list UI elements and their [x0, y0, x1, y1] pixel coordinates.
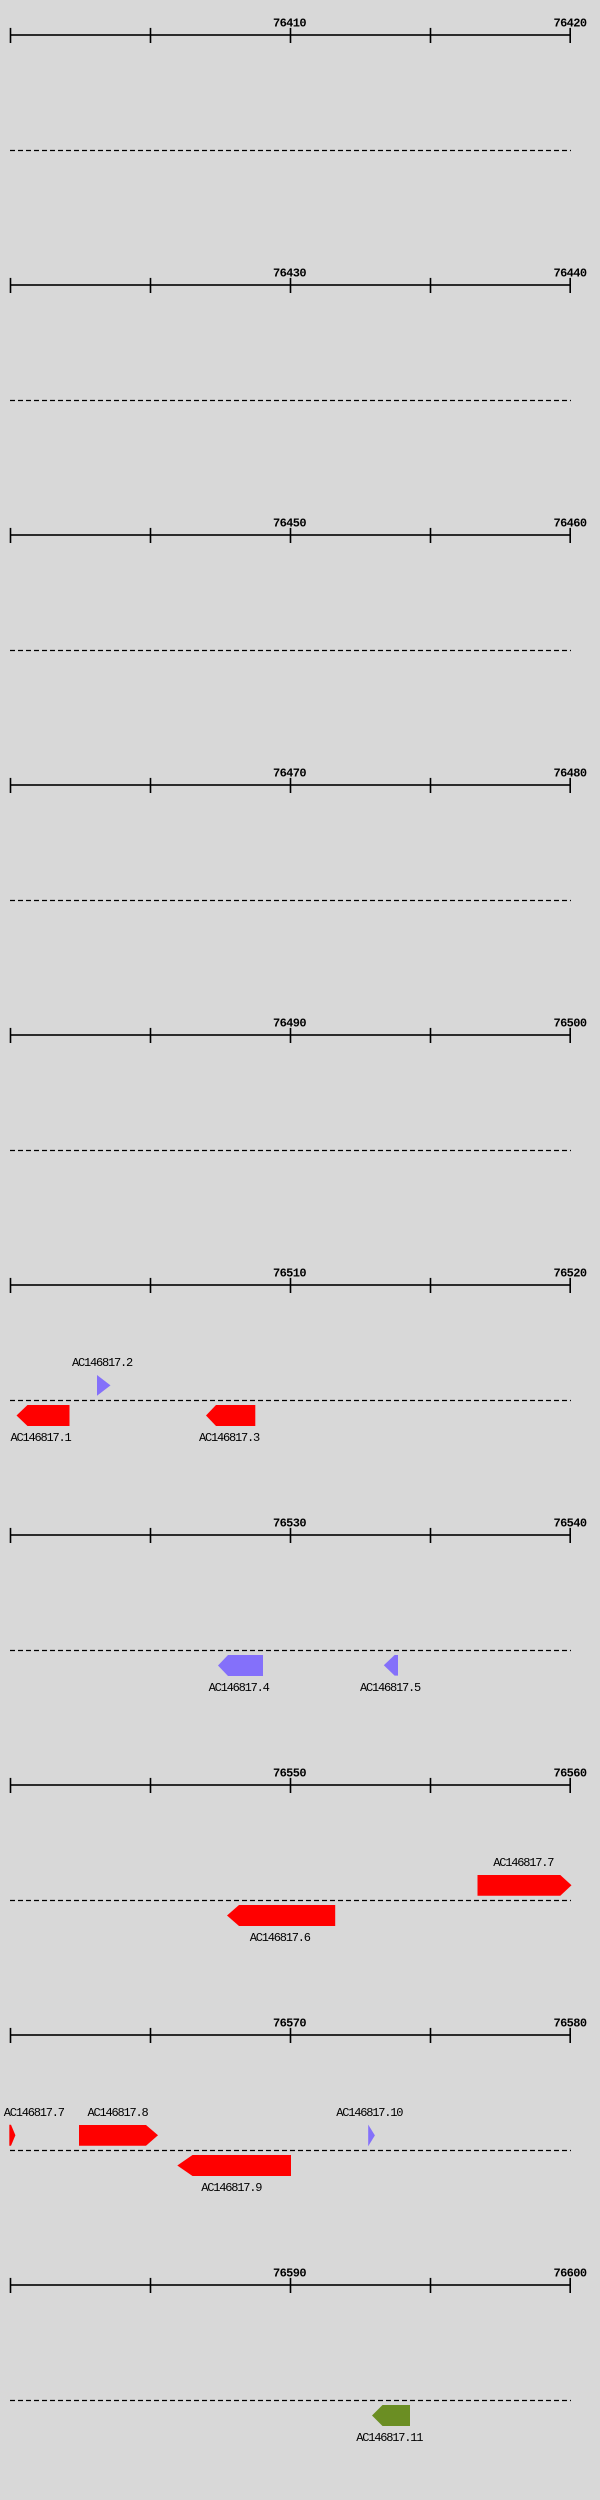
svg-text:AC146817.2: AC146817.2	[72, 1356, 133, 1370]
gene AC146817.1 arrow (reverse strand, red)	[17, 1405, 70, 1426]
svg-text:76420: 76420	[553, 17, 586, 31]
svg-text:76480: 76480	[553, 767, 586, 781]
ruler row 9 tick 4	[430, 2028, 432, 2043]
ruler row 6 baseline	[10, 1284, 571, 1286]
gene AC146817.10 arrow (forward strand, purple)	[368, 2125, 375, 2147]
ruler row 9 tick 5	[569, 2028, 571, 2043]
ruler row 10 tick 4	[430, 2278, 432, 2293]
svg-text:AC146817.7: AC146817.7	[493, 1856, 554, 1870]
ruler row 7 tick 3	[290, 1528, 292, 1543]
dashed strand-divider line row 1	[10, 150, 571, 152]
ruler row 3 baseline	[10, 534, 571, 536]
ruler row 4 tick 5	[569, 778, 571, 793]
dashed strand-divider line row 5	[10, 1150, 571, 1152]
svg-text:AC146817.10: AC146817.10	[336, 2106, 403, 2120]
gene AC146817.7 arrow (forward strand, red)	[478, 1875, 572, 1896]
gene AC146817.9 arrow (reverse strand, red)	[177, 2155, 291, 2176]
ruler row 6 tick 4	[430, 1278, 432, 1293]
svg-text:AC146817.11: AC146817.11	[356, 2431, 423, 2445]
svg-text:76430: 76430	[273, 267, 306, 281]
gene AC146817.8 arrow (forward strand, red)	[79, 2125, 158, 2146]
ruler row 9 tick 1	[10, 2028, 12, 2043]
ruler row 10 baseline	[10, 2284, 571, 2286]
ruler row 4 baseline	[10, 784, 571, 786]
svg-text:76490: 76490	[273, 1017, 306, 1031]
svg-text:76450: 76450	[273, 517, 306, 531]
svg-text:76570: 76570	[273, 2017, 306, 2031]
ruler row 10 tick 3	[290, 2278, 292, 2293]
ruler row 5 tick 4	[430, 1028, 432, 1043]
ruler row 9 baseline	[10, 2034, 571, 2036]
ruler row 1 tick 2	[150, 28, 152, 43]
svg-text:AC146817.3: AC146817.3	[199, 1431, 260, 1445]
dashed strand-divider line row 9	[10, 2150, 571, 2152]
ruler row 4 tick 4	[430, 778, 432, 793]
gene AC146817.5 arrow (reverse strand, purple)	[384, 1655, 398, 1676]
ruler row 2 tick 2	[150, 278, 152, 293]
ruler row 1 baseline	[10, 34, 571, 36]
ruler row 9 tick 2	[150, 2028, 152, 2043]
dashed strand-divider line row 8	[10, 1900, 571, 1902]
ruler row 4 tick 1	[10, 778, 12, 793]
ruler row 7 tick 1	[10, 1528, 12, 1543]
ruler row 1 tick 4	[430, 28, 432, 43]
ruler row 6 tick 5	[569, 1278, 571, 1293]
svg-text:76470: 76470	[273, 767, 306, 781]
ruler row 8 tick 2	[150, 1778, 152, 1793]
ruler row 8 tick 4	[430, 1778, 432, 1793]
ruler row 2 tick 1	[10, 278, 12, 293]
ruler row 8 tick 5	[569, 1778, 571, 1793]
svg-text:AC146817.6: AC146817.6	[250, 1931, 311, 1945]
svg-text:76520: 76520	[553, 1267, 586, 1281]
ruler row 8 baseline	[10, 1784, 571, 1786]
svg-text:76590: 76590	[273, 2267, 306, 2281]
svg-text:AC146817.4: AC146817.4	[209, 1681, 270, 1695]
ruler row 5 tick 1	[10, 1028, 12, 1043]
gene AC146817.3 arrow (reverse strand, red)	[206, 1405, 255, 1426]
ruler row 5 baseline	[10, 1034, 571, 1036]
ruler row 4 tick 3	[290, 778, 292, 793]
svg-text:AC146817.1: AC146817.1	[11, 1431, 72, 1445]
dashed strand-divider line row 3	[10, 650, 571, 652]
gene AC146817.4 arrow (reverse strand, purple)	[218, 1655, 263, 1676]
svg-text:76530: 76530	[273, 1517, 306, 1531]
ruler row 5 tick 5	[569, 1028, 571, 1043]
ruler row 9 tick 3	[290, 2028, 292, 2043]
gene AC146817.6 arrow (reverse strand, red)	[227, 1905, 335, 1926]
ruler row 7 tick 2	[150, 1528, 152, 1543]
svg-text:76460: 76460	[553, 517, 586, 531]
ruler row 2 tick 4	[430, 278, 432, 293]
svg-text:AC146817.8: AC146817.8	[88, 2106, 149, 2120]
svg-text:76500: 76500	[553, 1017, 586, 1031]
ruler row 6 tick 1	[10, 1278, 12, 1293]
ruler row 3 tick 3	[290, 528, 292, 543]
ruler row 3 tick 5	[569, 528, 571, 543]
ruler row 5 tick 3	[290, 1028, 292, 1043]
svg-text:76580: 76580	[553, 2017, 586, 2031]
ruler row 8 tick 3	[290, 1778, 292, 1793]
ruler row 4 tick 2	[150, 778, 152, 793]
dashed strand-divider line row 2	[10, 400, 571, 402]
ruler row 10 tick 5	[569, 2278, 571, 2293]
svg-text:76550: 76550	[273, 1767, 306, 1781]
svg-text:AC146817.9: AC146817.9	[201, 2181, 262, 2195]
svg-text:76540: 76540	[553, 1517, 586, 1531]
svg-text:76560: 76560	[553, 1767, 586, 1781]
dashed strand-divider line row 7	[10, 1650, 571, 1652]
ruler row 2 tick 3	[290, 278, 292, 293]
ruler row 7 baseline	[10, 1534, 571, 1536]
ruler row 2 baseline	[10, 284, 571, 286]
ruler row 8 tick 1	[10, 1778, 12, 1793]
ruler row 1 tick 3	[290, 28, 292, 43]
ruler row 1 tick 1	[10, 28, 12, 43]
ruler row 7 tick 4	[430, 1528, 432, 1543]
svg-text:AC146817.7: AC146817.7	[4, 2106, 65, 2120]
ruler row 5 tick 2	[150, 1028, 152, 1043]
svg-text:76410: 76410	[273, 17, 306, 31]
ruler row 10 tick 1	[10, 2278, 12, 2293]
ruler row 3 tick 4	[430, 528, 432, 543]
ruler row 7 tick 5	[569, 1528, 571, 1543]
ruler row 6 tick 3	[290, 1278, 292, 1293]
ruler row 2 tick 5	[569, 278, 571, 293]
dashed strand-divider line row 4	[10, 900, 571, 902]
ruler row 3 tick 1	[10, 528, 12, 543]
ruler row 3 tick 2	[150, 528, 152, 543]
gene AC146817.2 arrow (forward strand, purple)	[97, 1375, 111, 1396]
ruler row 10 tick 2	[150, 2278, 152, 2293]
svg-text:AC146817.5: AC146817.5	[360, 1681, 421, 1695]
gene AC146817.11 arrow (reverse strand, olive)	[372, 2405, 410, 2426]
ruler row 6 tick 2	[150, 1278, 152, 1293]
svg-text:76510: 76510	[273, 1267, 306, 1281]
svg-text:76440: 76440	[553, 267, 586, 281]
svg-text:76600: 76600	[553, 2267, 586, 2281]
dashed strand-divider line row 6	[10, 1400, 571, 1402]
ruler row 1 tick 5	[569, 28, 571, 43]
gene AC146817.7 continuation arrowhead (forward strand, red)	[9, 2125, 15, 2146]
dashed strand-divider line row 10	[10, 2400, 571, 2402]
